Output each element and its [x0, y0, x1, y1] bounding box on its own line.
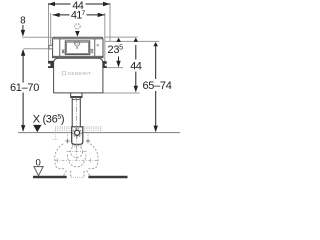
wall hatch band right: [84, 127, 101, 131]
access window outer: [65, 41, 89, 55]
toilet foot bottom: [71, 176, 84, 178]
dimension 61-70 up arrow: [21, 49, 25, 56]
floor line right segment: [88, 176, 127, 179]
dimension 61-70 down arrow: [21, 125, 25, 132]
hatch dotted edge right: [100, 127, 102, 133]
cistern body: [54, 58, 103, 93]
dimension 41.7 line: [53, 14, 70, 16]
flush connection circle outer dashed: [73, 129, 81, 137]
ref line cistern top left: [22, 36, 52, 38]
clip screw dot right: [90, 50, 91, 51]
dimension 41.7 right arrow: [98, 13, 105, 17]
screw mark right: [86, 140, 90, 142]
construction line left inner frame: [50, 13, 52, 46]
dimension 65-74 up arrow: [153, 42, 158, 46]
pipe centerline: [76, 98, 78, 149]
wall hatch band left: [55, 127, 71, 131]
cistern lid bottom seam: [53, 55, 103, 57]
dimension 61-70 line: [22, 55, 24, 83]
access window inner: [67, 42, 89, 53]
dimension 44 top line: [48, 3, 71, 5]
dimension 44 right line: [135, 45, 137, 60]
water supply arrow: [75, 31, 80, 37]
ref line bracket right: [107, 67, 123, 69]
toilet right wing: [88, 144, 98, 169]
datum 0 open triangle: [34, 167, 43, 176]
svg-text:61–70: 61–70: [10, 82, 39, 94]
Geberit logo square: [62, 72, 65, 75]
toilet trap circle: [71, 146, 83, 158]
flush pipe stub: [70, 93, 72, 96]
dimension 23.5 down arrow: [116, 61, 120, 68]
toilet foot right flare: [87, 171, 90, 177]
window clip left: [62, 50, 65, 53]
cistern lid inner vertical right: [94, 39, 96, 57]
toilet foot left flare: [63, 171, 66, 177]
toilet seat line: [55, 159, 98, 161]
flush bend: [72, 127, 83, 145]
flush connection circle inner: [75, 130, 80, 135]
cistern lid inner vertical left: [59, 39, 61, 57]
fixing bracket right: [102, 61, 106, 68]
dimension 44 right down arrow: [134, 86, 138, 93]
ref line tab left: [24, 48, 50, 50]
dimension 8 down arrow: [22, 25, 24, 31]
construction line right outer frame: [109, 3, 111, 41]
small dot below crosshair: [77, 47, 78, 48]
construction line left outer frame: [48, 3, 50, 61]
flush pipe coupling lower edge: [72, 99, 81, 101]
toilet foot sides: [70, 171, 72, 178]
construction line right inner frame: [104, 13, 106, 62]
dimension 65-74 line: [155, 44, 157, 79]
water connection crosshair in window: [75, 41, 80, 46]
toilet trap crosshair horizontal: [67, 151, 87, 153]
toilet inlet stub dashes: [71, 144, 73, 147]
dimension 23.5 line: [118, 42, 120, 44]
cistern lid outline: [53, 37, 103, 57]
dimension 44 right up arrow: [134, 38, 139, 42]
ref line cistern top right upper: [105, 36, 138, 38]
hatch dotted edge left: [54, 127, 56, 140]
toilet left wing: [55, 144, 65, 169]
dimension 44 top left arrow: [48, 2, 55, 6]
dimension 23.5 up arrow: [116, 38, 121, 42]
dimension 41.7 left arrow: [53, 13, 60, 17]
toilet seat mark left: [56, 158, 58, 162]
small x mark right lid: [97, 44, 99, 46]
floor line left segment: [33, 176, 67, 179]
frame tab left: [49, 45, 53, 49]
ref line cistern top right lower: [105, 40, 160, 42]
water supply dashed circle: [75, 24, 80, 29]
flush pipe coupling: [70, 96, 82, 98]
dimension 44 top right arrow: [103, 2, 110, 6]
level marker X triangle: [33, 125, 41, 132]
clip screw dot left: [63, 51, 64, 52]
toilet centerline lower: [76, 149, 78, 161]
svg-text:GEBERIT: GEBERIT: [67, 71, 91, 77]
cistern lid top seam: [54, 38, 103, 40]
toilet outline group: [55, 144, 98, 178]
toilet seat mark right: [90, 158, 92, 162]
svg-text:65–74: 65–74: [142, 80, 171, 92]
window clip right: [90, 49, 93, 53]
ref line flush connection level: [18, 132, 180, 134]
flush pipe: [71, 98, 73, 127]
svg-text:44: 44: [130, 61, 142, 73]
ref line cistern bottom right: [103, 92, 140, 94]
dimension 65-74 down arrow: [154, 126, 158, 133]
toilet bowl dome: [67, 155, 86, 167]
fixing bracket left: [48, 61, 54, 68]
screw mark left: [65, 140, 69, 142]
